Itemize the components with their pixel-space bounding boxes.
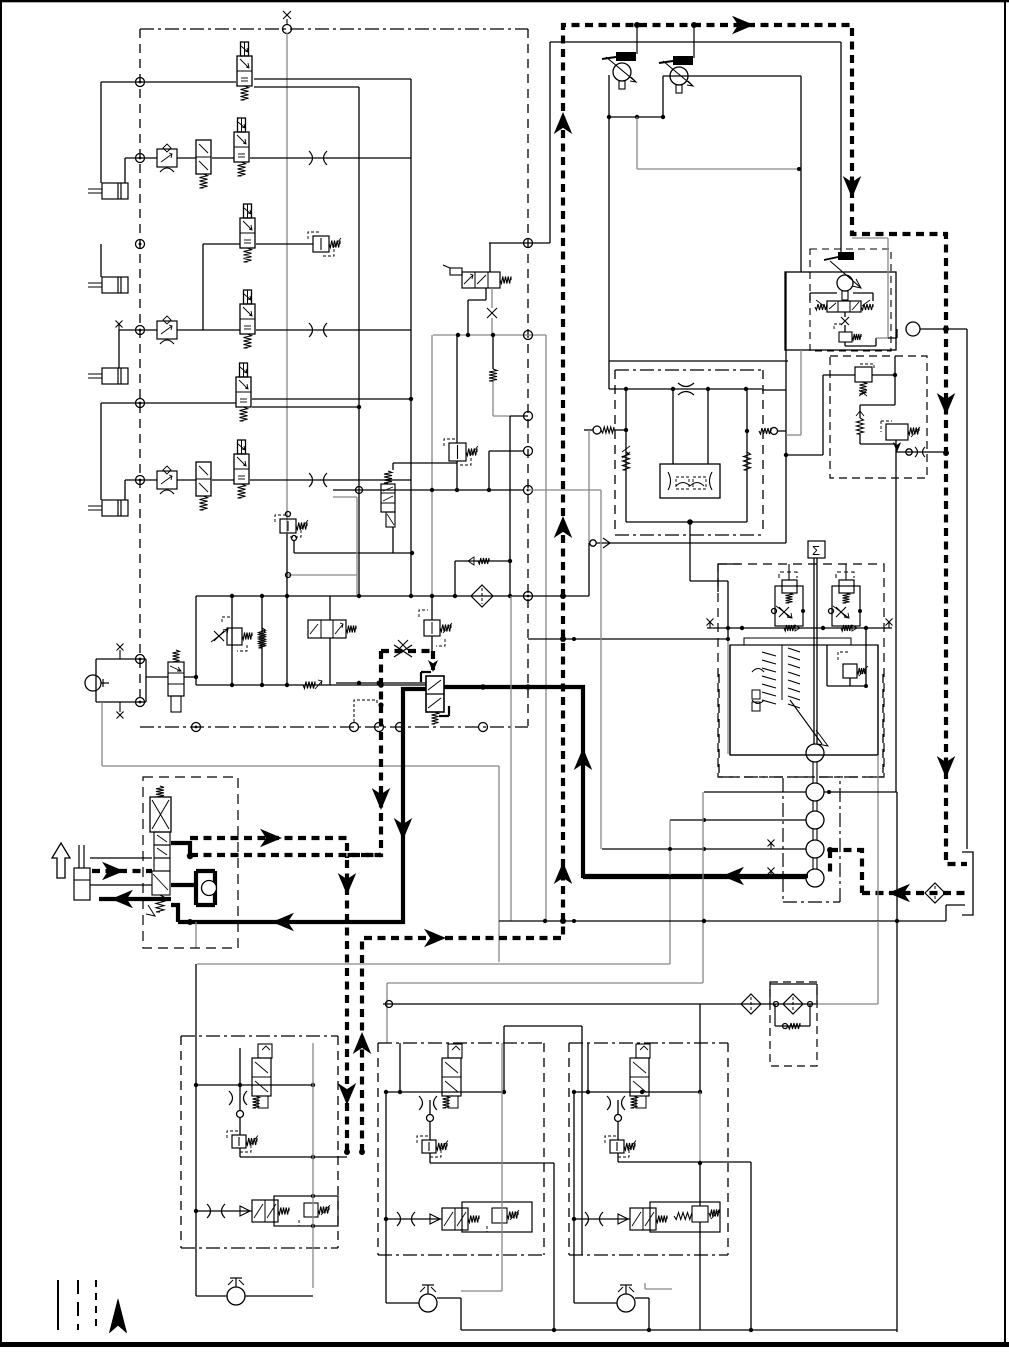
svg-text:Σ: Σ — [812, 543, 820, 558]
